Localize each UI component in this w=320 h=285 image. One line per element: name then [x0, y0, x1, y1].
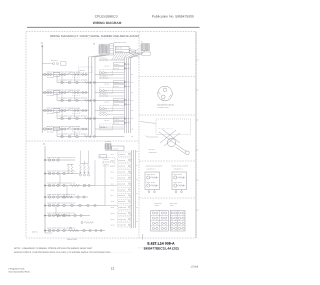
svg-text:NOTE : UNMARKED TERMINAL CODES: NOTE : UNMARKED TERMINAL CODES APPEAR ON… [14, 247, 93, 250]
svg-text:LOWER OVEN ELEMENT: LOWER OVEN ELEMENT [146, 166, 163, 168]
svg-text:K2 W-8: K2 W-8 [114, 86, 119, 88]
svg-text:W-17: W-17 [111, 195, 114, 197]
svg-text:K4 TDO BK: K4 TDO BK [100, 93, 107, 95]
svg-text:K12 RLY BK: K12 RLY BK [118, 219, 126, 221]
svg-text:N.O. COM: N.O. COM [47, 95, 54, 97]
svg-text:K4 TDO BK: K4 TDO BK [100, 75, 107, 77]
svg-text:P3 BK-2: P3 BK-2 [114, 82, 119, 84]
svg-text:K5 RLY: K5 RLY [104, 159, 109, 161]
svg-text:RELAY K1: RELAY K1 [101, 72, 108, 74]
svg-text:’ New Guaranteed Parts: ’ New Guaranteed Parts [8, 270, 30, 273]
svg-text:5995477BEC3.L4A (2/2): 5995477BEC3.L4A (2/2) [144, 246, 179, 250]
svg-text:BR SENSOR HI-LIMIT ELEMENT: BR SENSOR HI-LIMIT ELEMENT 2850W BK [59, 98, 88, 100]
svg-text:BR SENSOR HI-LIMIT ELEMENT: BR SENSOR HI-LIMIT ELEMENT 2850W BK [59, 80, 88, 82]
svg-text:W-111: W-111 [111, 219, 115, 221]
svg-text:K4 TDO BK: K4 TDO BK [100, 57, 107, 59]
svg-text:RELAY K1: RELAY K1 [101, 127, 108, 129]
svg-text:W-13: W-13 [111, 172, 114, 174]
svg-text:K4 RLY BK: K4 RLY BK [118, 172, 125, 174]
svg-text:P3 BK-2: P3 BK-2 [114, 64, 119, 66]
svg-text:CIRCUIT BK-5: CIRCUIT BK-5 [174, 168, 183, 170]
svg-text:DLB RLY: DLB RLY [80, 70, 86, 72]
svg-text:BROIL 3000W: BROIL 3000W [174, 174, 183, 176]
svg-text:BK W R: BK W R [105, 120, 110, 122]
svg-text:1/2008: 1/2008 [191, 266, 199, 269]
svg-text:BK: BK [132, 129, 134, 131]
svg-text:P4: P4 [100, 156, 102, 158]
svg-text:K7 RLY BK: K7 RLY BK [118, 189, 125, 191]
svg-text:ERC BD: ERC BD [113, 148, 118, 150]
svg-text:N.O. COM: N.O. COM [47, 131, 54, 133]
svg-text:N.O. COM: N.O. COM [47, 113, 54, 115]
svg-text:K2 W-8: K2 W-8 [114, 123, 119, 125]
svg-text:K1 RLY BK: K1 RLY BK [118, 154, 125, 156]
svg-text:RELAY K1: RELAY K1 [101, 108, 108, 110]
svg-text:K9 RLY BK: K9 RLY BK [118, 201, 125, 203]
svg-text:K2 RLY BK: K2 RLY BK [118, 160, 125, 162]
svg-text:BK: BK [132, 136, 134, 138]
svg-text:BK: BK [132, 74, 134, 76]
svg-text:WIRING DIAGRAM: WIRING DIAGRAM [93, 21, 122, 25]
svg-text:W-10: W-10 [111, 154, 114, 156]
svg-text:W-19: W-19 [111, 207, 114, 209]
svg-text:CIRCUIT BK-4: CIRCUIT BK-4 [147, 168, 156, 170]
svg-text:BK: BK [132, 82, 134, 84]
svg-text:P3 BK-2: P3 BK-2 [114, 100, 119, 102]
svg-text:BK: BK [132, 118, 134, 120]
svg-text:N.O. COM: N.O. COM [47, 77, 54, 79]
svg-text:W-18: W-18 [111, 201, 114, 203]
svg-text:# Frigidaire Parts: # Frigidaire Parts [8, 268, 24, 271]
svg-text:BROIL 3000W: BROIL 3000W [174, 182, 183, 184]
svg-text:K2 W-8: K2 W-8 [114, 104, 119, 106]
svg-text:K8 RLY BK: K8 RLY BK [118, 195, 125, 197]
svg-text:W-14: W-14 [111, 178, 114, 180]
svg-text:W-12: W-12 [111, 166, 114, 168]
svg-text:W-11: W-11 [111, 160, 114, 162]
svg-text:BROIL 3000W: BROIL 3000W [147, 174, 156, 176]
svg-text:BK W R: BK W R [105, 66, 110, 68]
svg-text:K2 W-8: K2 W-8 [114, 68, 119, 70]
svg-text:RELAY K1: RELAY K1 [101, 90, 108, 92]
svg-text:W-112: W-112 [111, 225, 115, 227]
svg-text:W-16: W-16 [111, 189, 114, 191]
svg-text:K11 RLY BK: K11 RLY BK [118, 213, 126, 215]
svg-text:K13 RLY BK: K13 RLY BK [118, 225, 126, 227]
svg-text:K5 RLY BK: K5 RLY BK [118, 178, 125, 180]
svg-text:SURF. UNIT: SURF. UNIT [154, 203, 162, 205]
svg-text:K10 RLY BK: K10 RLY BK [118, 207, 126, 209]
svg-text:13: 13 [111, 267, 115, 271]
svg-text:BR SENSOR HI-LIMIT ELEMENT: BR SENSOR HI-LIMIT ELEMENT 2850W BK [59, 116, 88, 118]
svg-text:BR SENSOR HI-LIMIT ELEMENT: BR SENSOR HI-LIMIT ELEMENT 2850W BK [59, 134, 88, 136]
svg-text:P9: P9 [129, 48, 131, 50]
svg-text:K6 RLY BK: K6 RLY BK [118, 183, 125, 185]
svg-text:WIRING DIAGRAM (LT. 393047): WIRING DIAGRAM (LT. 393047) SERIAL NUMBE… [50, 35, 139, 38]
svg-text:W-110: W-110 [111, 213, 115, 215]
svg-text:BK: BK [132, 110, 134, 112]
svg-text:SW RF: SW RF [155, 205, 160, 207]
svg-text:BK: BK [132, 92, 134, 94]
svg-text:W-15: W-15 [111, 183, 114, 185]
svg-text:WIRING CODES ( SUPPRESSED WIRE: WIRING CODES ( SUPPRESSED WIRE FEATURE )… [14, 251, 132, 254]
svg-text:BK W R: BK W R [105, 84, 110, 86]
svg-text:SURF. UNIT: SURF. UNIT [170, 203, 178, 205]
svg-text:K3 RLY BK: K3 RLY BK [118, 166, 125, 168]
svg-text:CPLES399EC3: CPLES399EC3 [95, 14, 118, 18]
svg-text:449 4495: 449 4495 [149, 149, 155, 151]
svg-text:K4 TDO BK: K4 TDO BK [100, 112, 107, 114]
svg-text:UPPER OVEN ELEMENT: UPPER OVEN ELEMENT [172, 166, 189, 168]
svg-text:SW LF: SW LF [170, 205, 174, 207]
svg-text:K6 RLY: K6 RLY [104, 164, 109, 166]
svg-text:Publication No. 5995475005: Publication No. 5995475005 [152, 14, 194, 18]
svg-text:S.627.L14 035-A: S.627.L14 035-A [147, 241, 175, 245]
svg-text:P3 BK-2: P3 BK-2 [114, 118, 119, 120]
svg-text:OFF ON HI: OFF ON HI [51, 60, 59, 62]
svg-text:BROIL 3000W: BROIL 3000W [147, 182, 156, 184]
svg-text:BK W R: BK W R [105, 102, 110, 104]
svg-text:BK: BK [132, 100, 134, 102]
svg-text:HINGE ASSY: HINGE ASSY [149, 152, 157, 154]
svg-text:5995475005: 5995475005 [67, 238, 77, 241]
